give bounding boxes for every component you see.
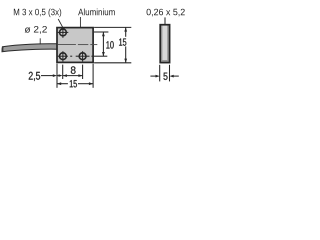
leader to M3 hole <box>58 19 63 27</box>
bottom extension line hole right <box>82 65 84 79</box>
label 8 <box>71 66 76 74</box>
hole bottom-right <box>79 53 86 60</box>
side extension line right <box>169 65 171 82</box>
cable end cap <box>2 47 4 52</box>
label M 3 x 0,5 (3x) <box>14 8 61 17</box>
dim 8 line <box>63 75 83 77</box>
label 15 bottom <box>70 80 77 87</box>
dim 5 arrows <box>150 75 156 77</box>
dim 15 vertical line <box>125 27 127 36</box>
hole M3 top-left <box>60 29 67 36</box>
leader to Aluminium body <box>79 17 81 27</box>
label cable diameter 2,2 <box>25 26 47 34</box>
leader to slot label <box>164 17 166 24</box>
label 2,5 <box>29 72 40 81</box>
cable <box>2 44 57 52</box>
label Aluminium <box>78 8 115 15</box>
label 0,26 x 5,2 <box>147 9 185 17</box>
side extension line left <box>159 65 161 82</box>
centerline through bottom holes <box>58 55 94 57</box>
dim 10 vertical line <box>102 32 104 56</box>
bottom extension line body right <box>92 64 94 88</box>
bottom extension line hole left <box>62 65 64 79</box>
label 10 <box>106 41 113 49</box>
side view bar <box>160 25 169 63</box>
label 15 right <box>119 39 126 46</box>
leader tick for cable diameter <box>39 38 41 44</box>
extension centerline (right) <box>94 55 107 57</box>
dim 2,5 arrow <box>41 75 53 77</box>
side view inner strip <box>162 26 167 60</box>
dim 15 bottom line <box>57 83 68 85</box>
body front view <box>57 28 93 63</box>
extension line hole row (right) <box>94 31 109 33</box>
bottom extension line body left <box>56 64 58 88</box>
extension line top edge (right) <box>94 26 131 28</box>
hole bottom-left <box>60 53 67 60</box>
extension line bottom edge (right) <box>94 62 131 64</box>
cable axis dash-dot line <box>58 44 98 46</box>
label 5 <box>163 73 167 80</box>
